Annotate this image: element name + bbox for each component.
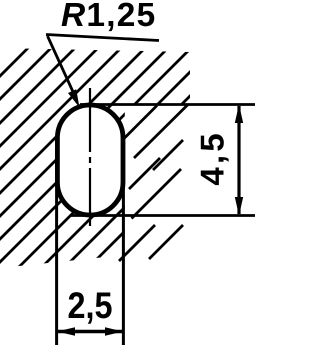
centerline [89,88,91,226]
extension line bottom (4,5 lower) [70,214,255,217]
slot hole outline [57,105,123,215]
extension line right vertical (2,5) [122,182,125,345]
extension line top (4,5 upper) [80,103,255,106]
dimension text 4,5 [201,134,229,185]
dimension text 2,5 [69,292,112,324]
dimension line 4,5 [237,106,240,214]
label R1,25 [62,3,155,32]
leader arrowhead [68,89,80,107]
dimension line 2,5 [57,330,123,333]
extension line left vertical (2,5) [55,182,58,345]
leader line [48,36,75,94]
leader shelf [46,35,159,41]
section hatching right band [119,105,188,262]
